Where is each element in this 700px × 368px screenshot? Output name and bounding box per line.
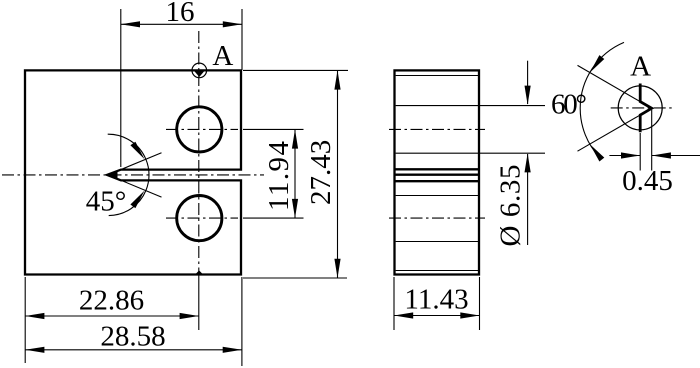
dim 11.43: left arrow [394,312,413,318]
svg-text:16: 16 [166,0,195,28]
dim 16: left extension line [120,9,122,167]
bottom edge triangle (points up) [196,270,203,274]
dim 27.43: bottom arrow [334,259,340,278]
side view rectangle [395,70,480,274]
dim 0.45: right dimension line [652,155,700,157]
dim 22.86: left arrow [25,313,44,319]
dim 11.43: left extension line [393,277,395,330]
hole bottom [177,196,222,241]
dim 28.58: right extension line [241,277,243,366]
dim 0.45: right extension line [651,110,653,171]
45 deg notch upper leg [108,153,162,175]
dim 28.58: right arrow [223,347,242,353]
notch tip profile (thick) [640,84,652,133]
extension of vertical centerline below plate (22.86 ext) [198,275,200,331]
svg-text:11.94: 11.94 [263,141,295,212]
dim 6.35: lower arrow (up) [525,153,531,172]
top chamfer line [396,75,478,77]
dim 0.45: left extension line [639,133,641,171]
detail centerline horizontal [611,107,675,109]
notch slot bottom line [395,180,480,182]
svg-text:22.86: 22.86 [79,285,144,317]
detail marker circle A on top edge [192,63,207,78]
dim 11.43: dimension line [394,315,480,317]
dim 6.35: lower dimension line [527,154,529,245]
dim 22.86: left extension line [24,277,26,363]
hole top silhouette line [396,105,478,107]
centerline hole top horizontal [166,128,238,130]
hole top [177,107,222,152]
45 deg arrow upper [130,142,144,160]
dim 27.43: dimension line [337,70,339,278]
centerline horizontal main (notch plane) [2,174,264,176]
lower hole top silhouette line [396,195,478,197]
dim 27.43: top arrow [334,70,340,89]
hole top centerline [389,128,485,130]
dim 22.86: dimension line [25,315,199,317]
dim 16: left arrow [121,21,140,27]
centerline vertical through holes [198,31,200,272]
60 deg arrow lower [590,144,605,161]
svg-text:A: A [212,40,233,72]
dim 27.43: bottom extension line [243,277,347,279]
lower hole centerline [389,217,485,219]
dim 6.35: upper arrow (down) [525,86,531,105]
plate outline with edge notch slot [25,70,241,274]
detail marker triangle (points down) [194,71,204,77]
60 deg arrow upper [590,55,605,73]
svg-text:60°: 60° [551,89,587,121]
dim 11.43: right extension line [479,277,481,330]
dim 28.58: dimension line [25,349,242,351]
dim 16: right arrow [223,21,242,27]
lower hole bottom silhouette line [396,241,478,243]
dim 16: dimension line [121,23,242,25]
dim 6.35: upper dimension line [527,61,529,104]
45 deg arrow lower [130,191,144,209]
notch slot top line [395,168,480,170]
bottom chamfer line [396,270,478,272]
svg-text:A: A [630,50,651,82]
dim 11.94: bottom arrow [292,199,298,218]
notch tip fill [107,171,118,180]
dim 11.94: bottom extension line [243,217,304,219]
svg-text:11.43: 11.43 [404,284,468,316]
dim 0.45: left arrow (points right) [621,152,640,158]
notch tip line [395,173,480,175]
45 deg dimension arc [108,134,149,215]
centerline hole bottom horizontal [166,217,238,219]
dim 0.45: right arrow (points left) [652,152,671,158]
dim 28.58: left arrow [25,347,44,353]
dim 11.94: dimension line [294,129,296,218]
svg-text:45°: 45° [86,186,127,218]
detail boundary circle [618,86,662,130]
dim 16: right extension line [241,9,243,70]
45 deg notch lower leg [108,175,162,197]
dim 6.35: top extension line [479,105,545,107]
dim 11.94: top extension line [243,128,304,130]
dim 6.35: bottom extension line [479,152,545,154]
svg-text:28.58: 28.58 [100,321,165,353]
dim 0.45: left dimension line [609,155,640,157]
dim 22.86: right arrow [180,313,199,319]
60 deg dimension arc [580,42,624,157]
60 deg upper construction leg [578,65,652,108]
dim 11.43: right arrow [460,312,479,318]
hole bottom silhouette line [396,152,478,154]
dim 27.43: top extension line [243,69,348,71]
svg-text:0.45: 0.45 [622,165,673,197]
svg-text:Ø 6.35: Ø 6.35 [495,165,527,247]
dim 11.94: top arrow [292,129,298,148]
svg-text:27.43: 27.43 [305,140,337,205]
60 deg lower construction leg [578,108,652,151]
